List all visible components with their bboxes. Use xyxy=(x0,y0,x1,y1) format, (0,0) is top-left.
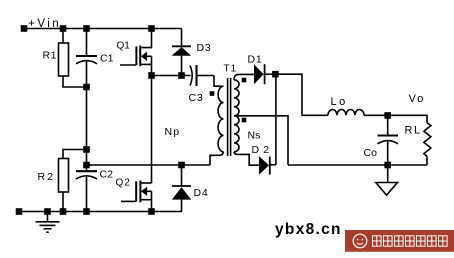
badge 硬件电子工程师 xyxy=(345,230,454,252)
wire D1 node to Lo xyxy=(275,74,328,115)
junction Q1 source node xyxy=(148,72,155,79)
transformer T1 primary winding xyxy=(218,86,223,152)
wire primary return xyxy=(87,164,211,166)
inductor Lo xyxy=(328,109,364,115)
wire +Vin rail xyxy=(24,28,182,30)
transistor Q2 xyxy=(121,181,152,212)
junction D3 anode node xyxy=(178,72,185,79)
svg-text:Vo: Vo xyxy=(409,93,426,105)
junction primary return node xyxy=(83,162,90,169)
svg-text:D3: D3 xyxy=(197,42,212,54)
svg-text:Lo: Lo xyxy=(331,96,348,108)
wire primary bottom lead xyxy=(210,152,224,165)
wire D1 node down to D2 cathode xyxy=(275,74,277,165)
svg-text:D1: D1 xyxy=(248,54,263,66)
junction R1 top xyxy=(60,25,67,32)
diode D3 xyxy=(172,46,191,75)
junction R2 bottom xyxy=(60,208,67,215)
resistor R2 xyxy=(59,150,87,212)
svg-text:+Vin: +Vin xyxy=(28,18,61,30)
wire rail elbow down to D3 xyxy=(181,29,183,47)
svg-text:D4: D4 xyxy=(194,187,209,199)
capacitor C3 xyxy=(190,65,214,86)
svg-text:Co: Co xyxy=(364,147,378,159)
svg-text:ybx8.cn: ybx8.cn xyxy=(275,221,342,238)
ground output triangle symbol xyxy=(376,166,398,196)
transformer T1 core xyxy=(228,78,231,156)
svg-text:R1: R1 xyxy=(43,50,58,62)
wire C3 to primary top xyxy=(214,76,224,87)
capacitor Co xyxy=(378,116,399,166)
polarity dot primary xyxy=(210,91,215,96)
junction output node xyxy=(384,112,391,119)
junction C1 top xyxy=(83,25,90,32)
svg-text:Ns: Ns xyxy=(248,130,261,142)
diode D2 xyxy=(259,156,276,175)
junction C2 bottom xyxy=(83,208,90,215)
svg-text:RL: RL xyxy=(405,125,422,137)
svg-text:C1: C1 xyxy=(100,53,114,65)
resistor R1 xyxy=(59,29,87,88)
svg-text:Q2: Q2 xyxy=(116,178,131,189)
junction Q1 drain on rail xyxy=(148,25,155,32)
wire secondary bottom lead to D2 xyxy=(234,152,259,165)
junction R2 top node xyxy=(83,146,90,153)
svg-text:Np: Np xyxy=(165,126,181,138)
svg-text:R2: R2 xyxy=(38,171,56,183)
junction Q2 source on rail xyxy=(148,208,155,215)
polarity dot secondary top xyxy=(242,78,247,83)
svg-text:D 2: D 2 xyxy=(252,144,270,156)
svg-text:C3: C3 xyxy=(189,92,204,104)
svg-text:Q1: Q1 xyxy=(117,41,131,52)
svg-text:T1: T1 xyxy=(224,64,238,75)
junction Co bottom node xyxy=(384,162,391,169)
svg-text:C2: C2 xyxy=(100,169,114,181)
junction D4 cathode node xyxy=(178,162,185,169)
wire switch node down to Q2 drain xyxy=(151,76,153,184)
node +Vin terminal xyxy=(21,25,28,32)
capacitor C1 xyxy=(76,29,97,88)
wire secondary ground rail xyxy=(288,164,427,166)
wire output node to RL top xyxy=(388,115,427,123)
transformer T1 secondary winding xyxy=(234,80,239,152)
diode D1 xyxy=(254,64,272,84)
polarity dot secondary mid xyxy=(242,118,247,123)
node rail left end xyxy=(16,208,23,215)
transistor Q1 xyxy=(120,29,152,76)
wire secondary top lead to D1 xyxy=(234,74,254,79)
junction R1-C1 node xyxy=(83,84,90,91)
wire C1 node down to R2 node xyxy=(86,87,88,150)
wire switch node to C3 xyxy=(152,75,191,77)
resistor RL xyxy=(424,123,431,165)
wire Lo to output node xyxy=(364,114,388,116)
wire bottom-left ground rail xyxy=(19,211,182,213)
wire Ns center tap xyxy=(234,116,288,165)
junction D1 cathode node xyxy=(272,71,279,78)
diode D4 xyxy=(172,165,191,212)
ground earth symbol xyxy=(36,212,60,233)
junction ground node xyxy=(44,208,51,215)
capacitor C2 xyxy=(76,150,97,212)
